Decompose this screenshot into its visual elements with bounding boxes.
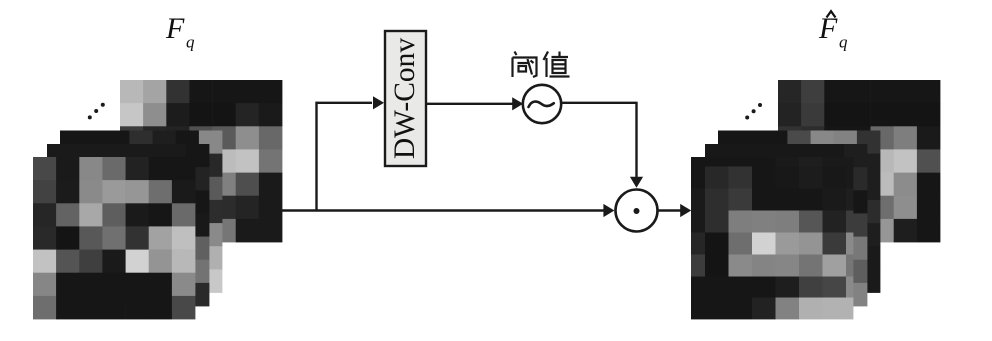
wire: branch horizontal into DW-Conv box xyxy=(316,102,373,104)
wire: branch vertical up from main line xyxy=(315,102,317,212)
threshold sigmoid circle with tilde xyxy=(523,85,561,123)
svg-text:q: q xyxy=(839,33,848,52)
feature-map front layer (left stack) xyxy=(33,157,195,319)
DW-Conv block xyxy=(385,31,426,166)
element-wise product circle (dot) xyxy=(616,190,658,232)
ellipsis dots (left stack) xyxy=(88,103,105,120)
ellipsis dots (right stack) xyxy=(745,103,762,120)
feature-map middle layer 2 (right stack) xyxy=(718,131,880,293)
svg-text:q: q xyxy=(186,33,195,52)
wire: DW-Conv box to threshold circle xyxy=(426,103,513,105)
feature-map middle layer 3 (left stack) xyxy=(47,144,209,306)
feature-map front layer (right stack) xyxy=(691,157,853,319)
wire: threshold circle right then down into product circle xyxy=(561,102,637,104)
wire: product circle output to right stack xyxy=(658,209,681,211)
svg-text:DW-Conv: DW-Conv xyxy=(389,38,421,160)
label F_hat_q (right) xyxy=(818,11,848,51)
label F_q (left) xyxy=(165,12,195,52)
feature-map back layer (left stack F_q) xyxy=(120,80,282,242)
wire: main horizontal from left stack to product circle xyxy=(281,209,604,211)
feature-map middle layer 2 (left stack) xyxy=(60,131,222,293)
svg-text:F: F xyxy=(165,12,185,45)
label: threshold (CJK characters drawn as strokes) xyxy=(513,52,570,78)
feature-map middle layer 3 (right stack) xyxy=(705,144,867,306)
feature-map back layer (right stack F_hat_q) xyxy=(778,80,940,242)
